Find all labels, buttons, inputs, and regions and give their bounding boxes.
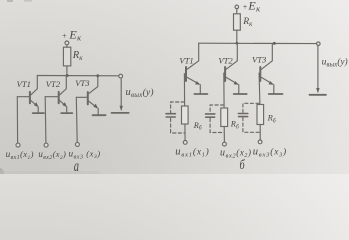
svg-text:VT1: VT1 <box>179 56 193 66</box>
collector <box>31 76 38 96</box>
output node (right) <box>310 42 327 95</box>
collector rail (left) <box>37 75 119 77</box>
base lead <box>76 96 87 98</box>
resistor Rb2 <box>221 108 228 127</box>
wire Rb3 to terminal <box>259 125 261 140</box>
base lead <box>223 72 225 74</box>
ground <box>112 112 129 114</box>
base bar <box>87 92 89 104</box>
svg-text:+: + <box>242 3 247 12</box>
capacitor C2 plates <box>206 114 215 117</box>
label +Ek (right) <box>242 0 261 13</box>
base lead <box>17 96 29 98</box>
emitter ground <box>234 93 247 95</box>
label Rk (left) <box>72 50 83 62</box>
svg-text:uвх2(x2): uвх2(x2) <box>38 149 66 161</box>
ground <box>310 94 327 96</box>
resistor Rb3 <box>257 105 264 125</box>
supply terminal +Ek (right) <box>235 5 239 14</box>
svg-text:а: а <box>74 157 80 174</box>
transistor VT2 (left) <box>45 76 72 114</box>
emitter <box>187 77 199 84</box>
input branch 2: wire base to resistor <box>223 73 225 108</box>
scan marks top edge <box>7 0 32 2</box>
wire Rk to rail <box>236 30 238 43</box>
base lead <box>258 72 260 74</box>
junction dot rail/VT3 <box>273 42 276 45</box>
transistor VT1 (right) <box>184 43 207 94</box>
wire Rb2 to terminal <box>223 127 225 143</box>
base bar <box>259 67 261 81</box>
resistor Rk (right) <box>234 14 241 30</box>
collector <box>226 43 237 69</box>
svg-text:VT3: VT3 <box>252 54 266 64</box>
capacitor C1 plates <box>166 114 175 117</box>
input lead x2 (left) <box>44 97 48 147</box>
junction dot rail/Rk <box>236 42 239 45</box>
svg-text:+: + <box>62 31 67 40</box>
label +Ek (left) <box>62 27 83 42</box>
base bar <box>29 92 31 103</box>
emitter ground <box>269 93 283 95</box>
transistor VT1 (left) <box>17 76 44 114</box>
base lead <box>45 96 58 98</box>
collector <box>89 76 98 94</box>
scan smudge bottom-left <box>0 168 100 178</box>
capacitor C1 (dashed branch) <box>171 102 185 133</box>
collector rail (right) <box>199 42 317 44</box>
svg-text:б: б <box>240 156 246 172</box>
input terminal x3 (right) <box>258 140 262 144</box>
supply terminal +Ek (left) <box>65 41 69 47</box>
base bar <box>185 67 187 81</box>
svg-text:VT2: VT2 <box>46 79 61 89</box>
collector <box>187 43 199 69</box>
input lead x3 (left) <box>75 97 79 146</box>
input terminal x1 (right) <box>183 141 187 145</box>
transistor VT2 (right) <box>224 43 247 94</box>
collector <box>261 43 272 69</box>
emitter <box>31 100 38 106</box>
input branch 3: wire base to resistor <box>258 73 261 104</box>
emitter <box>226 77 237 84</box>
emitter ground <box>93 114 106 116</box>
transistor VT3 (right) <box>259 43 282 94</box>
input lead x1 (left) <box>16 97 20 147</box>
capacitor C2 (dashed branch) <box>210 105 224 133</box>
emitter ground <box>33 112 44 114</box>
input terminal x2 (right) <box>223 142 227 146</box>
base bar <box>58 92 60 103</box>
emitter <box>59 100 65 106</box>
svg-text:VT1: VT1 <box>17 79 31 89</box>
input branch 1: wire base to resistor <box>183 74 185 106</box>
capacitor C3 (dashed branch) <box>243 103 260 132</box>
collector <box>59 76 66 96</box>
resistor Rb1 <box>182 106 189 124</box>
junction dot rail/VT3 <box>96 74 99 77</box>
base lead <box>183 73 186 75</box>
capacitor C3 plates <box>238 114 247 117</box>
wire <box>66 45 68 47</box>
emitter ground <box>61 112 72 114</box>
resistor Rk (left) <box>63 47 70 66</box>
transistor VT3 (left) <box>76 76 105 116</box>
wire Rk to rail <box>66 66 68 76</box>
svg-text:VT2: VT2 <box>218 56 233 66</box>
base bar <box>224 67 226 81</box>
svg-text:VT3: VT3 <box>75 78 89 88</box>
emitter <box>261 77 272 84</box>
output node (left) <box>112 74 129 113</box>
emitter ground <box>194 93 207 95</box>
junction dot rail/Rk <box>66 74 69 77</box>
wire Rb1 to terminal <box>184 124 186 140</box>
emitter <box>89 101 97 107</box>
